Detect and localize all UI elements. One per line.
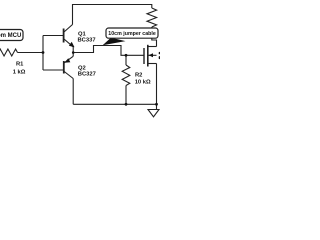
label fragment right edge upper: [159, 52, 162, 54]
MOSFET source stub: [148, 63, 157, 65]
MOSFET body stub: [148, 54, 157, 56]
transistor Q1 emitter: [64, 39, 73, 47]
svg-text:1 kΩ: 1 kΩ: [13, 70, 26, 76]
transistor Q1 collector: [64, 25, 73, 33]
transistor Q1 base bar: [63, 29, 65, 43]
transistor Q2 base bar: [63, 61, 65, 74]
wire Q2 collector down: [72, 79, 74, 105]
svg-text:Q1: Q1: [78, 31, 87, 37]
wire Q2 base: [43, 69, 63, 71]
label From MCU box: [0, 30, 23, 41]
svg-text:BC327: BC327: [78, 72, 96, 78]
label fragment right edge lower: [159, 56, 162, 59]
svg-text:From MCU: From MCU: [0, 33, 21, 39]
callout tail: [103, 38, 126, 46]
MOSFET gate bar: [143, 48, 145, 64]
wire base vertical: [42, 36, 44, 71]
junction dot output node: [72, 51, 75, 54]
junction dot R2 bottom: [125, 103, 128, 106]
transistor Q2 collector: [64, 72, 73, 79]
junction dot R2 top: [125, 54, 128, 57]
svg-text:R2: R2: [135, 73, 142, 79]
callout 10cm jumper cable box: [106, 28, 158, 38]
wire top rail: [73, 5, 152, 25]
MOSFET body arrow: [149, 53, 153, 57]
transistor Q1 emitter arrow: [69, 42, 75, 48]
wire Q1 base: [43, 35, 63, 37]
MOSFET drain stub: [148, 46, 157, 48]
node output vertical: [72, 47, 74, 57]
resistor R2 lead bottom: [125, 86, 127, 105]
ground: [148, 110, 159, 117]
wire output jog: [73, 46, 143, 56]
svg-text:R1: R1: [16, 62, 24, 68]
wire MOSFET source down to ground: [156, 64, 158, 110]
transistor Q2 emitter arrow: [64, 58, 70, 63]
resistor R1 zigzag: [0, 49, 18, 56]
svg-text:BC337: BC337: [78, 38, 96, 44]
wire input to base node: [18, 52, 44, 54]
resistor R2 zigzag: [122, 65, 130, 86]
wire bottom rail: [73, 103, 157, 105]
junction dot ground node: [155, 103, 158, 106]
svg-text:10cm jumper cable: 10cm jumper cable: [108, 31, 156, 37]
junction dot base node: [42, 51, 45, 54]
wire R3 to MOSFET drain: [152, 27, 157, 47]
MOSFET channel bar: [147, 45, 149, 67]
transistor Q2 emitter: [64, 56, 73, 63]
svg-text:10 kΩ: 10 kΩ: [135, 79, 151, 85]
resistor R2 lead top: [125, 55, 127, 65]
resistor R3 top-right vertical zigzag: [147, 8, 157, 27]
